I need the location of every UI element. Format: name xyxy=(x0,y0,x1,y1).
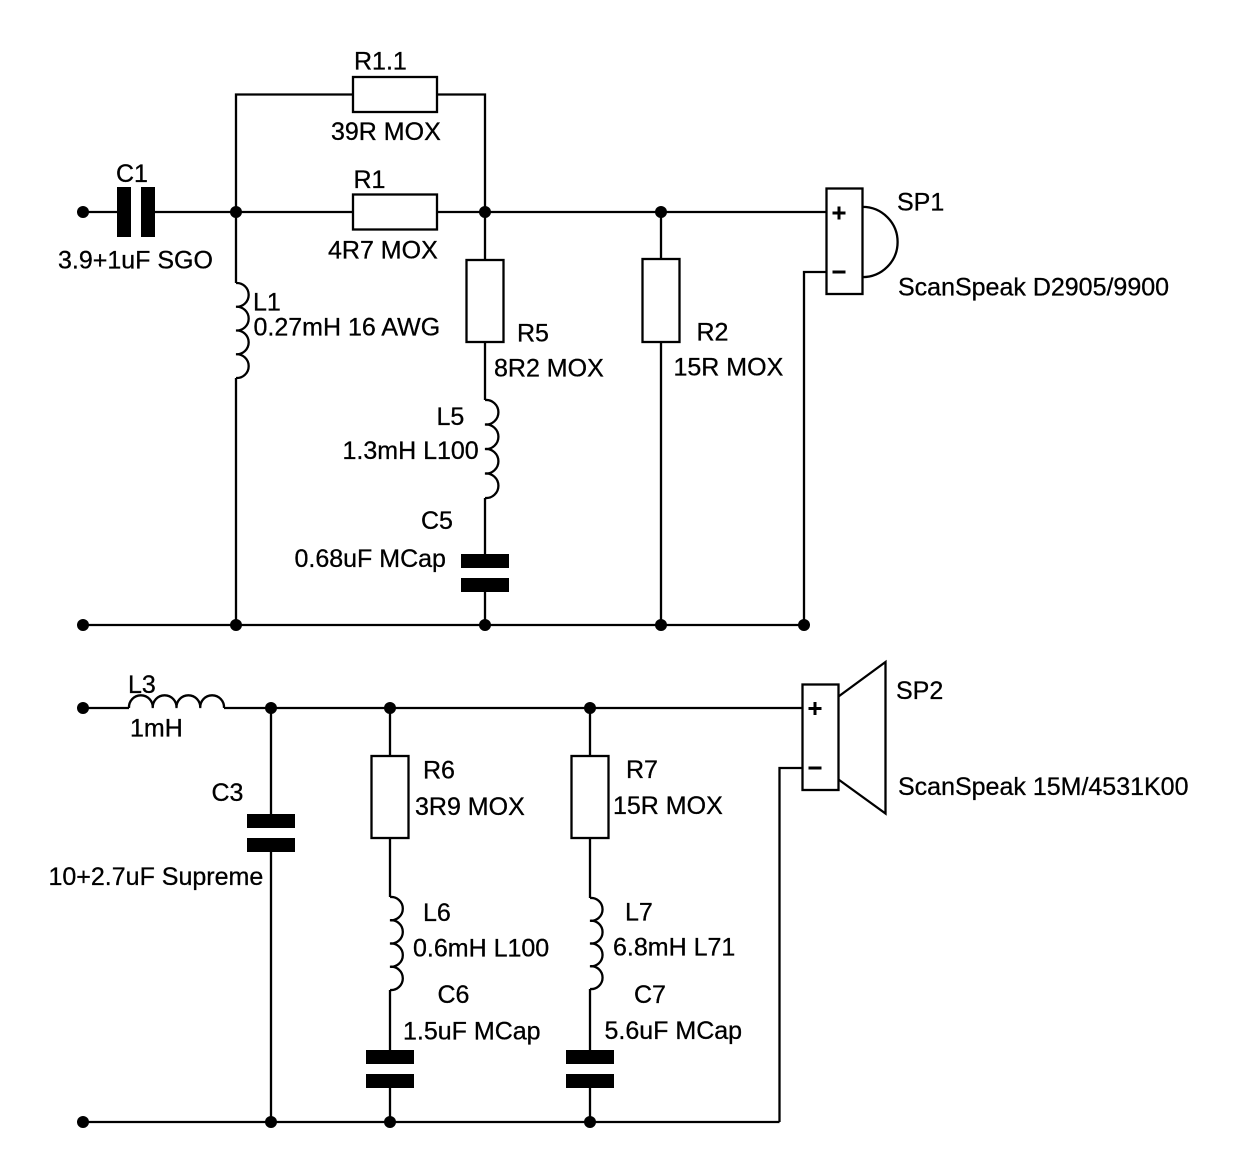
wire xyxy=(589,708,591,756)
speaker SP2 body xyxy=(803,685,839,791)
node xyxy=(655,619,667,631)
svg-text:L5: L5 xyxy=(437,403,465,431)
SP2 plus terminal xyxy=(809,702,822,715)
wire xyxy=(437,95,485,261)
wire xyxy=(270,852,272,1122)
capacitor C6 xyxy=(366,1050,414,1088)
svg-text:1.5uF MCap: 1.5uF MCap xyxy=(403,1018,541,1046)
wire xyxy=(389,1088,391,1122)
wire xyxy=(83,707,129,709)
svg-text:R7: R7 xyxy=(626,756,658,784)
svg-text:R6: R6 xyxy=(423,757,455,785)
input terminal top section xyxy=(77,206,89,218)
wire xyxy=(235,212,237,283)
wire xyxy=(389,990,391,1050)
svg-text:C6: C6 xyxy=(438,981,470,1009)
resistor R7 xyxy=(572,756,609,838)
resistor R2 xyxy=(643,259,680,342)
input terminal negative top section xyxy=(77,619,89,631)
svg-text:SP2: SP2 xyxy=(896,677,943,705)
svg-text:8R2 MOX: 8R2 MOX xyxy=(494,355,604,383)
speaker SP1 body xyxy=(827,189,863,295)
node junction E xyxy=(384,702,396,714)
SP1 dome xyxy=(863,207,898,277)
node xyxy=(265,1116,277,1128)
SP2 horn xyxy=(839,662,886,814)
node junction B xyxy=(479,206,491,218)
wire xyxy=(270,708,272,814)
SP1 minus terminal xyxy=(833,271,846,274)
svg-text:15R MOX: 15R MOX xyxy=(674,354,784,382)
wire xyxy=(660,342,662,625)
inductor L1 xyxy=(236,283,249,378)
svg-text:L3: L3 xyxy=(128,671,156,699)
svg-text:R1.1: R1.1 xyxy=(354,48,407,76)
capacitor C3 xyxy=(247,814,295,852)
wire xyxy=(155,211,353,213)
input terminal bottom section xyxy=(77,702,89,714)
svg-text:10+2.7uF Supreme: 10+2.7uF Supreme xyxy=(49,863,264,891)
svg-text:SP1: SP1 xyxy=(897,189,944,217)
inductor L3 xyxy=(129,695,224,708)
svg-text:R1: R1 xyxy=(354,166,386,194)
SP2 minus terminal xyxy=(809,767,822,770)
svg-text:L6: L6 xyxy=(423,899,451,927)
wire bottom rail top section xyxy=(83,624,804,626)
capacitor C7 xyxy=(566,1050,614,1088)
svg-text:ScanSpeak 15M/4531K00: ScanSpeak 15M/4531K00 xyxy=(898,773,1189,801)
svg-text:3R9 MOX: 3R9 MOX xyxy=(415,793,525,821)
node xyxy=(230,619,242,631)
svg-text:R5: R5 xyxy=(517,320,549,348)
capacitor C1 xyxy=(117,187,155,237)
svg-text:L1: L1 xyxy=(253,289,281,317)
svg-text:C5: C5 xyxy=(421,507,453,535)
svg-text:0.27mH 16 AWG: 0.27mH 16 AWG xyxy=(254,314,441,342)
node xyxy=(479,619,491,631)
wire xyxy=(484,498,486,554)
input terminal negative bottom section xyxy=(77,1116,89,1128)
wire xyxy=(660,212,662,259)
wire xyxy=(484,592,486,625)
svg-text:0.68uF MCap: 0.68uF MCap xyxy=(295,545,446,573)
inductor L6 xyxy=(390,897,403,990)
wire xyxy=(484,342,486,400)
svg-text:C7: C7 xyxy=(634,981,666,1009)
wire xyxy=(83,211,117,213)
svg-text:39R MOX: 39R MOX xyxy=(331,118,441,146)
wire xyxy=(389,838,391,897)
resistor R1.1 xyxy=(353,77,437,112)
wire xyxy=(389,708,391,756)
node xyxy=(584,1116,596,1128)
resistor R1 xyxy=(353,195,437,230)
wire xyxy=(235,378,237,625)
svg-text:0.6mH L100: 0.6mH L100 xyxy=(413,935,549,963)
svg-text:C3: C3 xyxy=(212,779,244,807)
wire xyxy=(804,272,827,625)
inductor L7 xyxy=(590,898,603,989)
svg-text:3.9+1uF SGO: 3.9+1uF SGO xyxy=(58,247,213,275)
svg-text:L7: L7 xyxy=(625,899,653,927)
svg-text:1.3mH L100: 1.3mH L100 xyxy=(343,437,479,465)
wire xyxy=(589,838,591,898)
wire xyxy=(224,707,803,709)
wire xyxy=(437,211,827,213)
wire xyxy=(780,768,803,1122)
svg-text:1mH: 1mH xyxy=(130,715,183,743)
svg-text:ScanSpeak D2905/9900: ScanSpeak D2905/9900 xyxy=(898,274,1169,302)
wire bottom rail bottom section xyxy=(83,1121,780,1123)
inductor L5 xyxy=(485,400,498,498)
svg-text:R2: R2 xyxy=(697,319,729,347)
svg-text:15R MOX: 15R MOX xyxy=(613,792,723,820)
node xyxy=(798,619,810,631)
capacitor C5 xyxy=(461,554,509,592)
svg-text:C1: C1 xyxy=(116,160,148,188)
node junction D xyxy=(265,702,277,714)
svg-text:6.8mH L71: 6.8mH L71 xyxy=(613,934,735,962)
resistor R6 xyxy=(372,756,409,838)
wire xyxy=(236,95,353,213)
svg-text:5.6uF MCap: 5.6uF MCap xyxy=(605,1017,743,1045)
node xyxy=(384,1116,396,1128)
resistor R5 xyxy=(467,260,504,342)
wire xyxy=(589,1088,591,1122)
wire xyxy=(589,989,591,1050)
SP1 plus terminal xyxy=(833,207,846,220)
node junction F xyxy=(584,702,596,714)
svg-text:4R7 MOX: 4R7 MOX xyxy=(328,237,438,265)
node junction A xyxy=(230,206,242,218)
node junction C xyxy=(655,206,667,218)
